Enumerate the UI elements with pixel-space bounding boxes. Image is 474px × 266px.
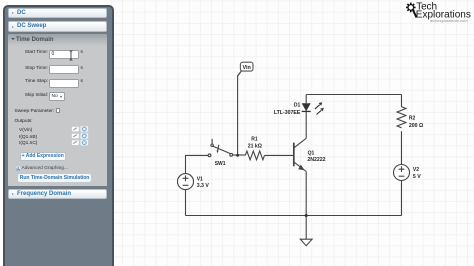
svg-text:R2: R2 [409,115,416,121]
svg-text:D1: D1 [294,103,301,109]
ground stem [305,216,307,240]
wire R1 to Q1 base [265,154,294,156]
svg-text:21 kΩ: 21 kΩ [248,143,262,149]
icon buttons for the three output rows [70,125,92,148]
cursor I-beam in Start Time input [67,50,75,61]
logo TechExplorations [406,1,471,23]
svg-text:Q1: Q1 [308,150,315,156]
Add Expression button [20,152,66,161]
wire R2 top [401,95,403,107]
wire SW1 right to R1 [233,154,246,156]
node junction at Vin/R1 [236,154,239,157]
svg-text:2N2222: 2N2222 [307,157,325,163]
svg-text:R1: R1 [251,137,258,143]
header [8,34,107,46]
wire Vin vertical [237,76,239,156]
sidebar panel [3,5,114,266]
resistor R1 [245,151,264,160]
form rows (coords relative to section: section origin x=8,y=33.5) [8,48,48,58]
svg-text:Vin: Vin [243,65,251,71]
wire emitter down [305,172,307,216]
wire R2 to V2 [401,131,403,164]
Time Domain section [8,34,107,186]
source V1 [178,174,194,190]
LED D1 [302,102,324,114]
svg-text:V1: V1 [197,176,203,182]
bottom rail [186,215,402,217]
switch SW1 [208,139,233,157]
svg-text:V2: V2 [413,167,419,173]
svg-text:3.3 V: 3.3 V [197,183,210,189]
Advanced Graphing row [16,166,21,171]
transistor Q1 [294,138,306,171]
svg-text:5 V: 5 V [413,174,421,180]
Frequency Domain header [8,189,107,199]
wire LED top [305,95,307,104]
svg-text:200 Ω: 200 Ω [409,123,423,129]
node junction at ground rail [305,214,308,217]
DC Sweep header [8,21,107,32]
top rail [306,94,401,96]
ground [300,239,312,246]
svg-text:techexplorations.com: techexplorations.com [430,18,468,23]
wire V2 bottom [401,181,403,216]
source V2 [394,165,410,181]
wire V1 top to SW1 [186,155,209,173]
svg-text:SW1: SW1 [215,161,226,167]
resistor R2 [397,107,406,128]
wire V1 bottom [185,190,187,216]
DC header [8,8,107,19]
Run Time-Domain Simulation button [18,174,92,182]
output rows [19,128,32,134]
wire LED to collector [305,111,307,138]
node Vin flag [238,62,253,76]
svg-text:LTL-307EE: LTL-307EE [274,110,301,116]
